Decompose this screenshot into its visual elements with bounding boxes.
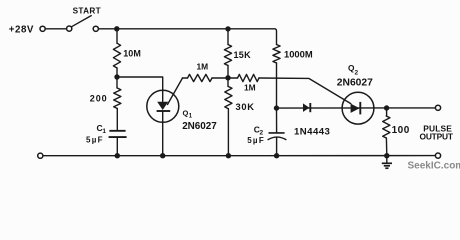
svg-text:5µF: 5µF — [86, 135, 104, 144]
svg-text:10M: 10M — [123, 48, 141, 58]
svg-text:1N4443: 1N4443 — [294, 126, 330, 137]
svg-text:2: 2 — [355, 69, 359, 76]
svg-text:200: 200 — [90, 93, 108, 103]
svg-text:30K: 30K — [236, 102, 255, 112]
svg-text:+28V: +28V — [9, 25, 34, 36]
svg-text:SeekIC.com: SeekIC.com — [408, 160, 460, 171]
svg-text:5µF: 5µF — [247, 136, 265, 145]
svg-text:OUTPUT: OUTPUT — [420, 131, 454, 141]
svg-text:1M: 1M — [197, 62, 209, 72]
svg-text:START: START — [73, 6, 101, 15]
svg-text:2N6027: 2N6027 — [337, 78, 373, 89]
svg-text:1000M: 1000M — [284, 49, 313, 60]
svg-text:2N6027: 2N6027 — [182, 121, 217, 132]
svg-text:100: 100 — [392, 125, 410, 136]
svg-text:1: 1 — [102, 128, 106, 135]
svg-text:15K: 15K — [234, 50, 252, 60]
svg-text:1M: 1M — [244, 83, 256, 93]
svg-text:Q: Q — [183, 109, 189, 118]
